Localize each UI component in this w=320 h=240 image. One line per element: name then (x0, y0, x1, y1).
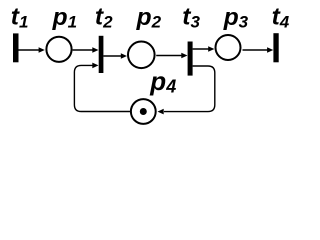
wire p3 to t4 (243, 49, 269, 51)
wire t1 to p1 (19, 49, 40, 51)
wire t3 to p3 (193, 48, 209, 50)
wire t3 to p4 (right feedback arc) (164, 66, 215, 112)
transition T2 (99, 36, 104, 73)
place P4 with token (131, 99, 156, 124)
place P3 (216, 35, 241, 60)
transition T1 (13, 33, 19, 62)
arrowhead into p2 (121, 53, 127, 59)
wire p1 to t2 (73, 49, 93, 51)
arrowhead into p3 (208, 46, 214, 52)
place P2 (128, 42, 155, 69)
wire p4 to t2 (left feedback arc) (74, 65, 130, 111)
place P1 (46, 37, 71, 62)
wire t2 to p2 (103, 55, 121, 57)
arrowhead into t4 (267, 47, 273, 53)
transition T4 (273, 33, 278, 62)
arrowhead into t2 (92, 47, 98, 53)
wire p2 to t3 (156, 55, 182, 57)
token in p4 (140, 108, 147, 115)
arrowhead into t2 from p4 (92, 63, 98, 69)
arrowhead into p1 (39, 47, 45, 53)
arrowhead into p4 (158, 109, 164, 115)
arrowhead into t3 (181, 53, 187, 59)
transition T3 (188, 42, 193, 76)
